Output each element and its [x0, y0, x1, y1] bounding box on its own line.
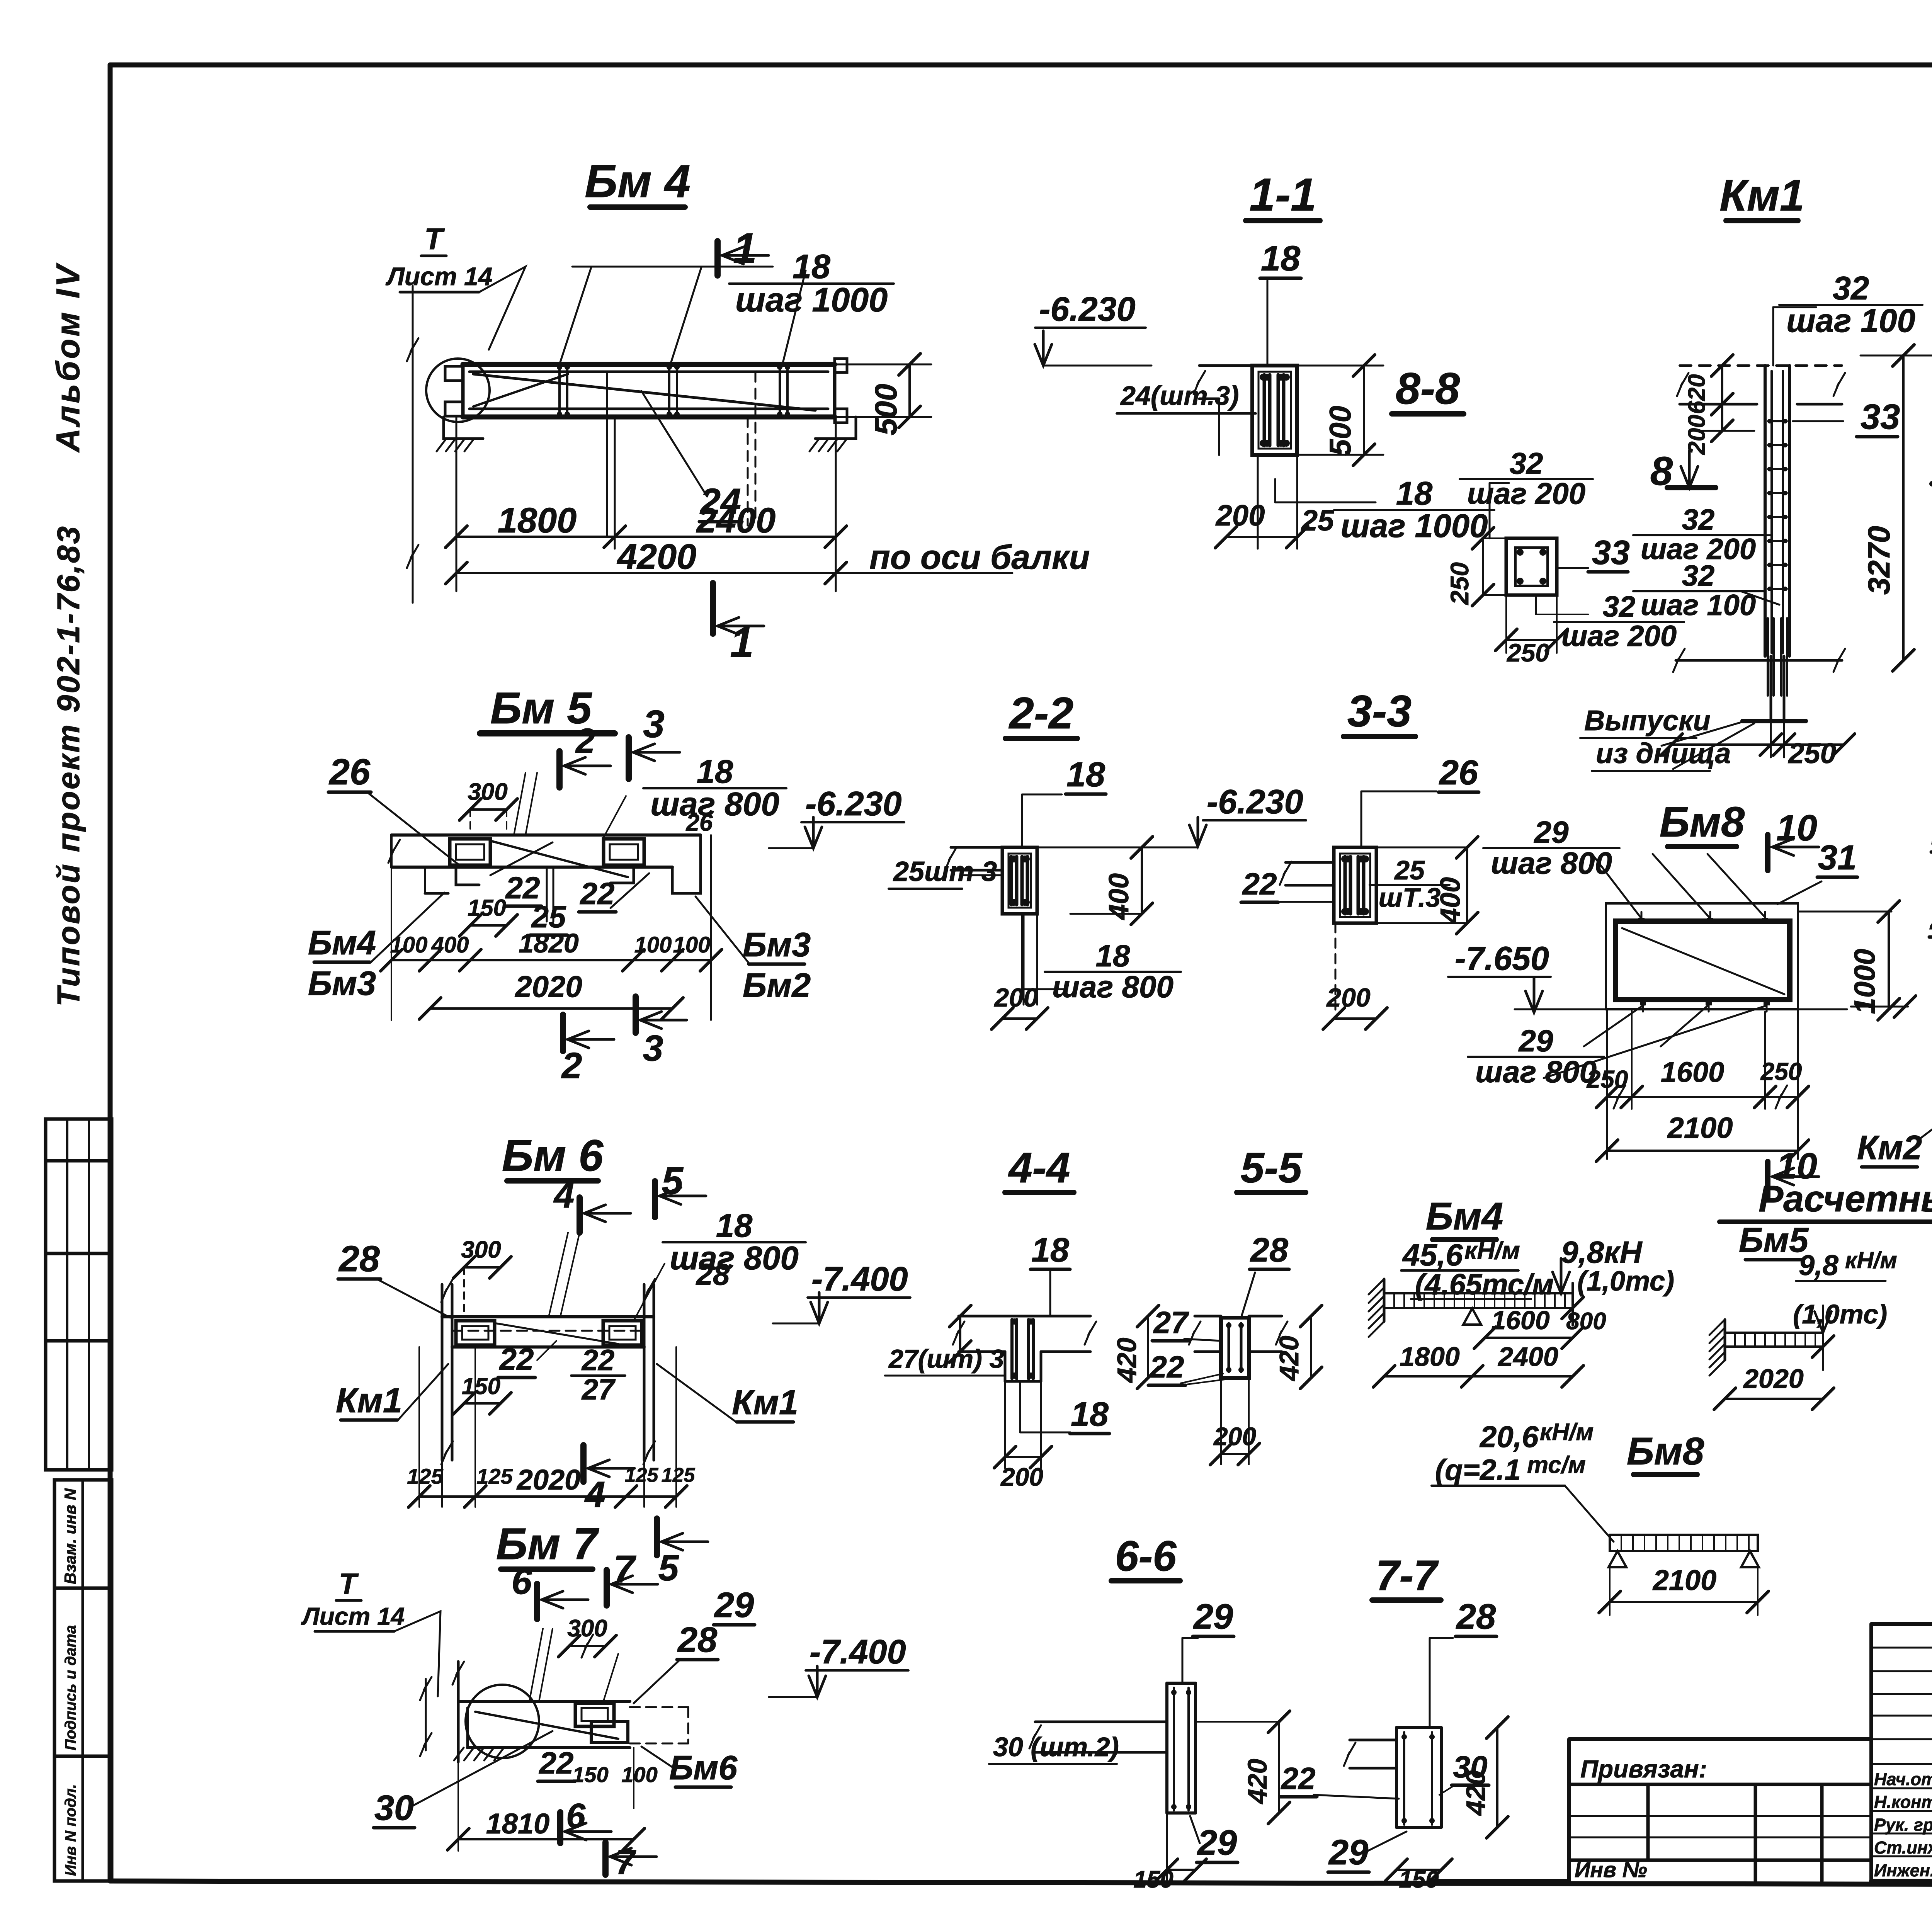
- svg-text:27: 27: [1153, 1305, 1189, 1340]
- 3-3 beam cross-section: [1334, 847, 1376, 923]
- svg-text:30 (шт.2): 30 (шт.2): [993, 1732, 1119, 1762]
- svg-text:(1,0тс): (1,0тс): [1577, 1266, 1674, 1297]
- svg-text:-6.230: -6.230: [1207, 782, 1303, 821]
- 6-6 wall section: [1165, 1683, 1168, 1813]
- svg-text:250: 250: [1587, 1065, 1628, 1093]
- svg-text:125: 125: [407, 1464, 443, 1488]
- left guide line of privyazan band: [1430, 1879, 1569, 1883]
- svg-text:29: 29: [1193, 1597, 1233, 1636]
- svg-text:4200: 4200: [617, 537, 697, 577]
- svg-text:1-1: 1-1: [1249, 169, 1316, 221]
- 7-7 dim 150: [1396, 1869, 1441, 1871]
- svg-text:150: 150: [1399, 1866, 1439, 1893]
- svg-text:(q=2.1: (q=2.1: [1435, 1454, 1521, 1486]
- scheme Bm8 supports: [1609, 1551, 1626, 1567]
- 3-3 extension below: [1335, 923, 1337, 1012]
- svg-text:18: 18: [1066, 755, 1105, 794]
- left support hatch: [444, 417, 483, 439]
- svg-text:200: 200: [1213, 1422, 1256, 1451]
- svg-text:400: 400: [1435, 877, 1466, 924]
- svg-text:3: 3: [643, 1028, 663, 1069]
- svg-text:45,6: 45,6: [1402, 1238, 1463, 1272]
- Bm6 section mark 4 bottom: [580, 1445, 587, 1482]
- Bm6 left column Km1: [441, 1284, 444, 1460]
- svg-text:шаг 1000: шаг 1000: [1341, 508, 1488, 544]
- svg-text:18: 18: [697, 753, 733, 790]
- 5-5 beam rect: [1221, 1318, 1249, 1378]
- svg-text:24(шт.3): 24(шт.3): [1120, 381, 1239, 411]
- svg-text:18: 18: [1396, 475, 1433, 512]
- svg-text:1810: 1810: [486, 1808, 550, 1840]
- 6-6 dim 150: [1167, 1869, 1196, 1871]
- svg-text:100: 100: [673, 932, 711, 957]
- 2-2 dim 200: [1002, 1017, 1037, 1020]
- 3-3 dim 200: [1334, 1017, 1376, 1020]
- svg-text:200: 200: [1684, 415, 1710, 455]
- scheme Bm4 load bar: [1384, 1293, 1573, 1308]
- svg-text:250: 250: [1787, 737, 1836, 769]
- svg-text:7: 7: [613, 1548, 636, 1591]
- Bm6 diagonal: [497, 1323, 618, 1344]
- 2-2 dim 400: [1141, 847, 1143, 914]
- svg-text:2100: 2100: [1652, 1564, 1717, 1596]
- Km1 bottom dim 250: [1672, 743, 1844, 746]
- svg-text:Н.контр.: Н.контр.: [1874, 1792, 1932, 1812]
- svg-text:22: 22: [580, 876, 615, 911]
- Bm7 anchor boxes: [575, 1703, 614, 1726]
- bent bar diagonal: [473, 374, 815, 410]
- Bm7 section mark 6 bottom: [557, 1812, 563, 1843]
- privyazan block outline: [1569, 1737, 1871, 1741]
- Km1 stirrup ladder: [1768, 420, 1787, 422]
- svg-text:1: 1: [733, 224, 757, 272]
- svg-text:29: 29: [714, 1585, 754, 1625]
- Bm8 section mark 10 top: [1765, 835, 1770, 871]
- svg-text:4: 4: [553, 1175, 575, 1216]
- svg-text:Рук. гр.: Рук. гр.: [1874, 1815, 1932, 1835]
- svg-text:25: 25: [1394, 855, 1425, 885]
- svg-text:-6.230: -6.230: [805, 784, 902, 823]
- svg-text:-7.400: -7.400: [811, 1260, 908, 1298]
- svg-text:100: 100: [390, 932, 428, 957]
- 6-6 dim 420 right: [1278, 1722, 1280, 1813]
- svg-text:150: 150: [468, 895, 506, 921]
- scheme Bm4 mid support triangle: [1463, 1308, 1481, 1325]
- svg-text:500: 500: [869, 384, 903, 435]
- dim 200 and 25: [1226, 536, 1297, 538]
- svg-text:7: 7: [616, 1843, 636, 1882]
- svg-text:5: 5: [658, 1548, 679, 1588]
- scheme Bm8 leader: [1565, 1486, 1614, 1542]
- svg-text:Бм4: Бм4: [1426, 1195, 1503, 1238]
- svg-text:шаг 800: шаг 800: [1475, 1054, 1597, 1089]
- svg-text:-6.230: -6.230: [1039, 290, 1136, 328]
- svg-text:28: 28: [677, 1620, 718, 1660]
- dim line 1800 2400: [456, 536, 836, 538]
- svg-text:2100: 2100: [1667, 1112, 1733, 1145]
- 2-2 extension below: [1023, 914, 1025, 1005]
- svg-text:шаг 800: шаг 800: [650, 786, 779, 823]
- svg-text:18: 18: [1031, 1231, 1069, 1269]
- svg-text:1600: 1600: [1491, 1306, 1549, 1335]
- Bm7 dashed continuation: [630, 1706, 688, 1708]
- svg-text:тс/м: тс/м: [1527, 1452, 1586, 1478]
- svg-text:250: 250: [1760, 1058, 1802, 1085]
- svg-text:26: 26: [686, 810, 713, 836]
- svg-text:2400: 2400: [696, 501, 776, 540]
- svg-text:Лист 14: Лист 14: [301, 1602, 405, 1630]
- svg-text:шаг 800: шаг 800: [1491, 846, 1612, 880]
- Bm5 dim 2020: [430, 1007, 672, 1010]
- section mark 1 top: [714, 241, 721, 276]
- svg-text:Расчетные схемы балок: Расчетные схемы балок: [1759, 1178, 1932, 1219]
- svg-text:6: 6: [512, 1561, 532, 1602]
- Km1 dim 3270: [1902, 355, 1905, 660]
- svg-text:29: 29: [1197, 1823, 1237, 1862]
- scheme Bm4 left support: [1383, 1279, 1386, 1321]
- svg-text:100: 100: [634, 932, 672, 957]
- Bm8 dim 250 1600 250: [1607, 1096, 1798, 1098]
- dim 500 right: [1297, 365, 1383, 367]
- Bm7 section mark 7 top: [604, 1570, 610, 1605]
- dim 500 right of beam: [835, 364, 931, 366]
- svg-text:Т: Т: [339, 1568, 359, 1600]
- svg-text:Выпуски: Выпуски: [1584, 704, 1711, 736]
- svg-text:32: 32: [1682, 560, 1715, 592]
- scheme Bm5 right tick: [1822, 1321, 1824, 1370]
- Bm5 section mark 3 bottom: [633, 997, 639, 1033]
- section mark 1 bottom: [710, 583, 716, 634]
- svg-text:Ст.инж: Ст.инж: [1874, 1838, 1932, 1857]
- svg-text:22: 22: [1149, 1350, 1184, 1384]
- svg-text:шаг 100: шаг 100: [1641, 589, 1756, 622]
- dim line 4200: [456, 572, 836, 574]
- svg-text:Бм 4: Бм 4: [585, 155, 690, 207]
- svg-text:6: 6: [566, 1797, 586, 1835]
- svg-text:28: 28: [696, 1257, 730, 1291]
- svg-text:2020: 2020: [1743, 1364, 1804, 1394]
- Km1 rebar outlets below: [1767, 618, 1769, 696]
- Bm6 section mark 5 bottom: [654, 1519, 660, 1555]
- svg-text:2020: 2020: [516, 1464, 581, 1496]
- svg-text:Альбом IV: Альбом IV: [50, 263, 87, 453]
- svg-text:шаг 200: шаг 200: [1467, 476, 1585, 510]
- svg-text:-7.400: -7.400: [810, 1633, 906, 1671]
- 2-2 beam cross-section: [1002, 847, 1037, 914]
- 5-5 dim 200: [1220, 1378, 1222, 1464]
- svg-text:29: 29: [1328, 1833, 1368, 1872]
- svg-text:100: 100: [621, 1762, 657, 1787]
- svg-text:26: 26: [328, 752, 371, 793]
- Bm5 anchor boxes: [450, 839, 490, 865]
- svg-text:4: 4: [584, 1474, 605, 1515]
- svg-text:кН/м: кН/м: [1540, 1419, 1594, 1446]
- svg-text:29: 29: [1929, 898, 1932, 937]
- Km1 base tee: [1743, 719, 1806, 723]
- svg-text:28: 28: [1250, 1231, 1288, 1269]
- Bm8 dim 1000 right: [1798, 911, 1891, 913]
- scheme Bm5 dim 2020: [1725, 1398, 1823, 1400]
- svg-text:420: 420: [1112, 1338, 1142, 1384]
- svg-text:Бм8: Бм8: [1660, 798, 1745, 846]
- svg-text:1000: 1000: [1849, 949, 1881, 1014]
- 4-4 rib: [1004, 1352, 1007, 1381]
- svg-text:10: 10: [1776, 808, 1817, 849]
- Bm7 leaders from above: [529, 1629, 543, 1701]
- 7-7 slab flange left: [1350, 1739, 1396, 1742]
- 2-2 slab stub left: [951, 846, 1002, 849]
- svg-text:Взам. инв N: Взам. инв N: [61, 1488, 79, 1584]
- svg-text:Инв №: Инв №: [1575, 1857, 1647, 1882]
- scheme Bm8 dim 2100: [1610, 1601, 1758, 1603]
- Bm5 dim row 100 400 1820 100 100: [391, 959, 711, 961]
- svg-text:125: 125: [476, 1464, 513, 1488]
- svg-text:32: 32: [1510, 446, 1543, 480]
- Bm8 top leader lines: [1592, 854, 1641, 918]
- svg-text:Км1: Км1: [336, 1381, 402, 1420]
- svg-text:Привязан:: Привязан:: [1580, 1755, 1707, 1783]
- 7-7 dim 420 right: [1496, 1728, 1498, 1827]
- title block: signature table grid: [1871, 1622, 1932, 1626]
- 7-7 wall section: [1395, 1728, 1398, 1827]
- Bm8 diagonal: [1622, 928, 1784, 994]
- svg-text:1600: 1600: [1661, 1056, 1725, 1088]
- stirrup leader lines: [572, 266, 773, 268]
- svg-text:Инжен.: Инжен.: [1874, 1861, 1932, 1880]
- svg-text:32: 32: [1833, 270, 1869, 307]
- svg-text:18: 18: [793, 247, 830, 286]
- 8-8 dim 250 bottom: [1506, 639, 1557, 641]
- svg-text:Подпись и дата: Подпись и дата: [62, 1625, 79, 1750]
- svg-text:22: 22: [1281, 1761, 1316, 1796]
- weld detail circle: [426, 359, 490, 422]
- svg-text:6-6: 6-6: [1115, 1532, 1177, 1580]
- svg-text:5: 5: [662, 1159, 684, 1202]
- svg-text:2: 2: [561, 1045, 582, 1086]
- 3-3 slab stub left lower: [1286, 861, 1334, 864]
- beam Bm4 body outline: [463, 362, 835, 367]
- svg-text:200: 200: [1000, 1463, 1043, 1491]
- Bm8 bottom leader lines: [1584, 1005, 1644, 1046]
- svg-text:Лист 14: Лист 14: [386, 262, 493, 291]
- svg-text:Км1: Км1: [1719, 171, 1804, 220]
- svg-text:22: 22: [539, 1746, 574, 1780]
- Km1 dim 620 and 200: [1721, 366, 1723, 404]
- svg-text:800: 800: [1566, 1308, 1606, 1335]
- svg-text:шТ.3: шТ.3: [1379, 883, 1441, 913]
- Bm6 anchor boxes: [456, 1321, 495, 1345]
- 8-8 column cross-section: [1506, 538, 1557, 595]
- Bm5 beam body: [391, 833, 701, 837]
- svg-text:32: 32: [1603, 590, 1636, 623]
- svg-text:Бм3: Бм3: [308, 964, 376, 1002]
- Bm7 left vertical dim: [425, 1679, 427, 1750]
- svg-text:33: 33: [1592, 533, 1630, 571]
- svg-text:27(шт) 3: 27(шт) 3: [888, 1344, 1004, 1374]
- svg-text:кН/м: кН/м: [1845, 1247, 1897, 1273]
- svg-text:-7.650: -7.650: [1455, 940, 1549, 977]
- svg-text:30: 30: [374, 1788, 414, 1828]
- Bm8 bottom level line: [1515, 1009, 1847, 1010]
- Bm5 hooks below: [456, 865, 479, 885]
- scheme Bm4 dims 1800 2400: [1384, 1375, 1573, 1378]
- Bm7 weld circle: [466, 1685, 539, 1758]
- 5-5 dim 420 right: [1310, 1316, 1312, 1378]
- scheme Bm4 dims 1600 800: [1485, 1337, 1573, 1339]
- svg-text:200: 200: [993, 983, 1038, 1012]
- svg-text:шаг 800: шаг 800: [670, 1240, 799, 1277]
- svg-text:шаг 800: шаг 800: [1052, 969, 1173, 1004]
- 6-6 slab flange left: [1035, 1721, 1167, 1723]
- 4-4 slab: [959, 1315, 1090, 1318]
- Bm6 section mark 5 top: [652, 1181, 658, 1217]
- 3-3 dim 400 right: [1466, 847, 1468, 923]
- svg-text:200: 200: [1215, 499, 1265, 532]
- scheme Bm4 right support tick: [1571, 1283, 1574, 1325]
- Bm6 right column Km1: [643, 1284, 646, 1460]
- Bm7 section mark 6 top: [534, 1584, 540, 1619]
- svg-text:шаг 200: шаг 200: [1561, 620, 1677, 653]
- scheme Bm8 load bar: [1610, 1535, 1758, 1551]
- svg-text:Бм 6: Бм 6: [502, 1131, 604, 1180]
- 4-4 rebar in rib: [1010, 1320, 1014, 1379]
- extension verticals under beam: [412, 286, 414, 603]
- svg-text:2020: 2020: [514, 969, 582, 1003]
- Bm7 section mark 7 bottom: [602, 1842, 609, 1875]
- svg-text:Т: Т: [424, 222, 445, 256]
- svg-text:Бм2: Бм2: [743, 966, 811, 1004]
- svg-text:300: 300: [567, 1615, 607, 1642]
- svg-text:620: 620: [1684, 374, 1710, 414]
- svg-text:шаг 1000: шаг 1000: [735, 281, 888, 319]
- Bm5 section mark 2 bottom: [560, 1015, 566, 1051]
- svg-text:18: 18: [716, 1207, 753, 1244]
- svg-text:250: 250: [1445, 562, 1474, 605]
- svg-text:1: 1: [730, 619, 753, 666]
- right support hatch: [815, 417, 856, 439]
- Km1 top slab lines: [1680, 364, 1842, 367]
- svg-text:по оси балки: по оси балки: [869, 538, 1090, 576]
- svg-text:3: 3: [643, 702, 665, 746]
- svg-text:150: 150: [572, 1762, 608, 1787]
- svg-text:500: 500: [1323, 406, 1357, 456]
- svg-text:4-4: 4-4: [1008, 1144, 1070, 1192]
- svg-text:18: 18: [1096, 939, 1130, 973]
- svg-text:(1,0тс): (1,0тс): [1793, 1299, 1887, 1329]
- svg-text:Бм3: Бм3: [743, 925, 811, 964]
- svg-text:250: 250: [1506, 638, 1549, 667]
- svg-text:125: 125: [662, 1464, 696, 1486]
- Bm6 section mark 4 top: [577, 1197, 583, 1233]
- drawing frame border: [110, 63, 1932, 68]
- Bm7 left wall: [457, 1662, 460, 1762]
- Bm8 bottom bar dots: [1640, 999, 1646, 1005]
- Bm5 center extension lines: [546, 867, 548, 922]
- Bm5 section mark 2 top: [556, 751, 563, 787]
- Bm8 dim 2100: [1607, 1150, 1798, 1152]
- svg-text:25: 25: [1301, 504, 1335, 537]
- section 1-1 beam cross-section: [1252, 366, 1297, 455]
- svg-text:Км2: Км2: [1857, 1128, 1922, 1167]
- 4-4 ticks left: [959, 1316, 961, 1352]
- svg-text:1820: 1820: [519, 928, 579, 958]
- svg-text:300: 300: [461, 1236, 501, 1263]
- svg-text:Бм8: Бм8: [1627, 1430, 1704, 1473]
- svg-text:300: 300: [468, 779, 507, 805]
- svg-text:9,8: 9,8: [1799, 1249, 1839, 1281]
- Bm8 plan outer rect: [1606, 903, 1798, 1009]
- scheme Bm4 point load arrow: [1560, 1259, 1563, 1293]
- svg-text:29: 29: [1534, 815, 1569, 849]
- svg-text:22: 22: [499, 1342, 534, 1376]
- svg-text:5-5: 5-5: [1241, 1144, 1303, 1192]
- Bm6 leaders from above: [549, 1233, 568, 1317]
- Bm5 leader lines from above: [514, 773, 526, 835]
- svg-text:кН/м: кН/м: [1464, 1236, 1520, 1264]
- svg-text:3-3: 3-3: [1347, 687, 1412, 736]
- svg-text:27: 27: [581, 1373, 616, 1406]
- beam Bm4 left end plates: [445, 366, 462, 381]
- svg-text:Нач.отд: Нач.отд: [1874, 1769, 1932, 1789]
- svg-text:200: 200: [1326, 983, 1371, 1012]
- svg-text:Км1: Км1: [732, 1383, 798, 1422]
- svg-text:20,6: 20,6: [1479, 1420, 1539, 1454]
- svg-text:32: 32: [1682, 503, 1715, 536]
- svg-text:420: 420: [1461, 1770, 1491, 1816]
- Km1 column shaft: [1764, 366, 1767, 656]
- svg-text:18: 18: [1261, 239, 1301, 278]
- Km1 footing top line: [1676, 659, 1842, 662]
- svg-text:25шт 3: 25шт 3: [893, 856, 997, 887]
- 5-5 dim 420 left: [1147, 1316, 1149, 1378]
- svg-text:1800: 1800: [498, 501, 577, 540]
- svg-text:420: 420: [1242, 1759, 1272, 1805]
- 5-5 slab stubs: [1195, 1315, 1221, 1318]
- Bm5 diagonal bars: [490, 841, 628, 877]
- stirrups in beam: [558, 364, 561, 417]
- svg-text:Бм4: Бм4: [308, 923, 376, 962]
- svg-text:3270: 3270: [1862, 526, 1896, 595]
- svg-text:9,8кН: 9,8кН: [1561, 1235, 1643, 1269]
- svg-text:150: 150: [462, 1373, 500, 1399]
- svg-text:28: 28: [1456, 1597, 1496, 1636]
- Bm7 beam body: [458, 1700, 630, 1703]
- Bm8 plan inner cage: [1616, 921, 1790, 1000]
- svg-text:28: 28: [338, 1238, 380, 1279]
- privyazan sub-table: [1646, 1784, 1650, 1860]
- svg-text:Типовой проект 902-1-76,83: Типовой проект 902-1-76,83: [51, 525, 86, 1007]
- svg-text:29: 29: [1518, 1024, 1553, 1058]
- svg-text:2-2: 2-2: [1009, 689, 1073, 738]
- Bm8 section mark 10 bottom: [1765, 1162, 1770, 1197]
- Bm8 top bar dots: [1638, 918, 1645, 924]
- svg-text:7-7: 7-7: [1376, 1552, 1439, 1599]
- extension lines below section: [1257, 455, 1259, 549]
- Bm7 diagonal: [475, 1712, 618, 1739]
- scheme Bm5 load bar: [1725, 1333, 1823, 1347]
- svg-text:Бм6: Бм6: [669, 1748, 738, 1787]
- Bm8 bottom extension lines: [1606, 1009, 1608, 1159]
- sidebar lower stamp table: [54, 1480, 112, 1881]
- 4-4 dim 200: [1004, 1381, 1006, 1468]
- svg-text:420: 420: [1274, 1336, 1304, 1382]
- Bm5 section mark 3 top: [626, 737, 632, 779]
- beam Bm4 right end tabs: [835, 359, 847, 372]
- svg-text:22: 22: [1242, 867, 1277, 901]
- sidebar upper stamp table: [46, 1119, 112, 1470]
- svg-text:31: 31: [1818, 838, 1857, 877]
- section 1-1 slab left stub: [1199, 364, 1252, 367]
